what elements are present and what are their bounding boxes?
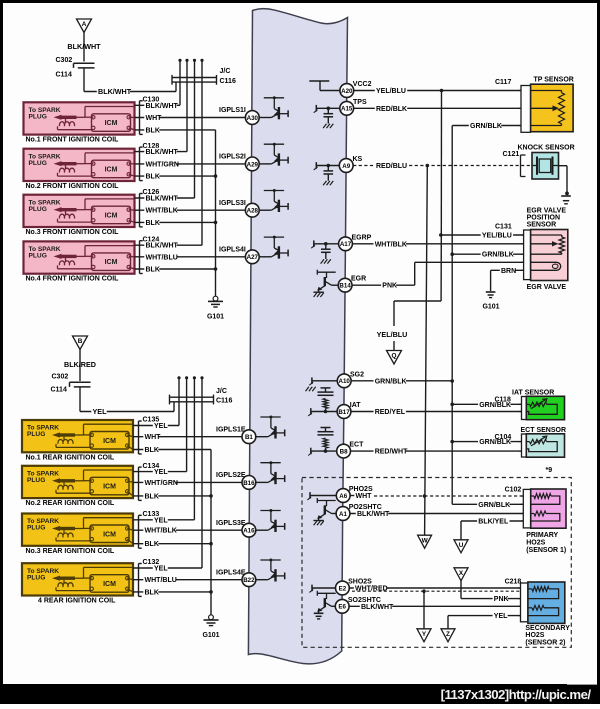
- TP sensor box: [531, 84, 574, 132]
- label PRIMARY HO2S (SENSOR 1): [526, 532, 566, 554]
- secondary HO2S heater: [528, 605, 559, 615]
- label C117: [495, 79, 511, 86]
- primary HO2S box: [531, 489, 566, 528]
- svg-text:IGPLS2E: IGPLS2E: [216, 472, 246, 479]
- wire WHT/GRN C134 to ECM: [133, 479, 242, 487]
- svg-text:GRN/BLK: GRN/BLK: [478, 502, 510, 509]
- ECM pin A6 PHO2S: [336, 489, 350, 503]
- wire RED/WHT B8 to ECT sensor: [351, 447, 522, 455]
- ECM stub A10: [306, 377, 338, 391]
- wire BLK/WHT E6 to secondary HO2S: [349, 602, 520, 610]
- label IGPLS1E: [216, 426, 246, 433]
- svg-text:B: B: [78, 338, 83, 345]
- svg-text:C114: C114: [56, 72, 72, 79]
- svg-text:BLK/WHT: BLK/WHT: [146, 243, 179, 250]
- svg-text:ECT: ECT: [349, 442, 364, 449]
- ECM pin B16 IGPLS2E: [242, 476, 256, 490]
- wire BLK C128 to ground bus: [135, 172, 216, 180]
- wire GRN/BLK EGR sensor: [452, 250, 523, 258]
- svg-text:IGPLS3E: IGPLS3E: [216, 520, 246, 527]
- label No.4 FRONT IGNITION COIL: [26, 276, 120, 283]
- svg-text:B16: B16: [243, 480, 255, 487]
- wire WHT A6 to primary HO2S (shielded): [350, 492, 523, 500]
- svg-text:SECONDARY: SECONDARY: [525, 625, 570, 632]
- label EGR VALVE POSITION SENSOR: [527, 208, 567, 229]
- svg-text:A10: A10: [339, 378, 351, 385]
- wire PNK secondary HO2S heater: [461, 595, 521, 603]
- connector Q triangle: [387, 351, 402, 365]
- svg-text:TPS: TPS: [353, 99, 367, 106]
- svg-text:ICM: ICM: [103, 581, 116, 588]
- label C126: [143, 189, 160, 196]
- svg-text:RED/BLU: RED/BLU: [376, 163, 407, 170]
- connector bracket C135: [139, 421, 142, 454]
- label C124: [143, 236, 160, 243]
- wire BLK/WHT C124 to J/C: [135, 241, 203, 249]
- wire YEL C133 to J/C: [133, 516, 194, 524]
- ground G101 (front): [208, 296, 223, 307]
- svg-text:No.1 REAR IGNITION COIL: No.1 REAR IGNITION COIL: [26, 454, 115, 461]
- label IGPLS3I: [219, 200, 246, 207]
- ECM pin A29 IGPLS2I: [245, 157, 259, 171]
- svg-text:A6: A6: [339, 493, 347, 500]
- svg-text:No.2 FRONT IGNITION COIL: No.2 FRONT IGNITION COIL: [26, 183, 120, 190]
- connector C104 strip: [519, 434, 526, 457]
- connector A triangle: [77, 19, 92, 33]
- connector bracket C124: [140, 241, 143, 274]
- label EGRP: [352, 234, 372, 241]
- label BLK/RED (B feed): [64, 360, 96, 369]
- ECM module band: [248, 9, 347, 664]
- transistor driver IGPLS2E: [256, 461, 285, 484]
- wire BLK/WHT C128 to J/C: [135, 148, 188, 156]
- label IGPLS3E: [216, 520, 246, 527]
- wire GRN/BLK sensor-ground bus: [450, 126, 454, 505]
- HO2S section dashed box: [302, 478, 571, 648]
- label C218: [505, 579, 522, 586]
- svg-text:YEL: YEL: [154, 566, 168, 573]
- svg-text:PLUG: PLUG: [27, 431, 45, 438]
- svg-text:WHT: WHT: [356, 493, 373, 500]
- svg-text:G101: G101: [207, 314, 224, 321]
- wire YEL/BLU VCC2 bus: [394, 91, 442, 351]
- ECM pin B17 IAT: [337, 405, 351, 419]
- ignition coil C126 No.3 front: [24, 195, 135, 227]
- label BLK/WHT (A feed): [67, 42, 101, 51]
- wire shield (secondary HO2S): [352, 589, 520, 593]
- svg-text:A29: A29: [247, 161, 259, 168]
- label TPS: [353, 99, 367, 106]
- wire BLK C130 to ground bus: [135, 126, 216, 134]
- svg-text:PLUG: PLUG: [27, 525, 45, 532]
- label IGPLS2E: [216, 472, 246, 479]
- svg-text:POSITION: POSITION: [527, 215, 560, 222]
- wire shield bus KS to W: [425, 166, 428, 536]
- svg-text:WHT/BLU: WHT/BLU: [146, 254, 178, 261]
- svg-text:C131: C131: [495, 224, 512, 231]
- ECM pin A16 IGPLS3E: [242, 523, 256, 537]
- svg-text:PLUG: PLUG: [27, 574, 45, 581]
- EGR valve solenoid: [531, 262, 561, 270]
- svg-text:BLK/WHT: BLK/WHT: [357, 511, 390, 518]
- label IGPLS1I: [219, 107, 246, 114]
- label PO2SHTC: [349, 504, 382, 511]
- svg-text:ICM: ICM: [105, 120, 118, 127]
- wire WHT/BLK A17 to EGR sensor: [352, 240, 523, 248]
- svg-text:C117: C117: [495, 79, 511, 86]
- ECM driver B14: [313, 270, 338, 297]
- label C128: [143, 143, 160, 150]
- svg-text:WHT/BLU: WHT/BLU: [145, 577, 177, 584]
- svg-text:A28: A28: [247, 208, 259, 215]
- wire RED/YEL B17 to IAT sensor: [351, 408, 522, 416]
- svg-text:J/C: J/C: [220, 68, 231, 75]
- label YEL/BLU (to Q): [377, 330, 408, 339]
- wire WHT/BLK C126 to ECM: [135, 206, 246, 214]
- svg-text:YEL: YEL: [494, 613, 508, 620]
- label SHO2S: [348, 579, 372, 586]
- transistor driver IGPLS1E: [256, 416, 285, 439]
- ECM pin E2 SHO2S: [336, 581, 350, 595]
- svg-text:BLK: BLK: [145, 541, 159, 548]
- ECT thermistor: [526, 436, 557, 452]
- svg-text:GRN/BLK: GRN/BLK: [375, 378, 407, 385]
- label SECONDARY HO2S (SENSOR 2): [525, 625, 570, 646]
- svg-text:No.3 FRONT IGNITION COIL: No.3 FRONT IGNITION COIL: [26, 229, 120, 236]
- IAT thermistor: [526, 399, 557, 415]
- primary HO2S heater: [531, 511, 560, 521]
- svg-text:G101: G101: [202, 632, 219, 639]
- svg-text:WHT: WHT: [146, 115, 163, 122]
- svg-text:BLK: BLK: [146, 267, 160, 274]
- svg-text:A17: A17: [340, 241, 352, 248]
- label C114 (rear): [51, 387, 67, 394]
- wire BLK C124 to ground bus: [135, 265, 216, 273]
- connector Z triangle: [441, 629, 455, 642]
- svg-text:YEL: YEL: [93, 407, 108, 416]
- wire BLK/WHT C130 to J/C: [135, 102, 181, 110]
- wire GRN/BLK A10 to bus: [351, 377, 452, 385]
- connector C302/C114 (rear): [70, 382, 91, 387]
- wire YEL secondary HO2S heater: [448, 612, 521, 629]
- svg-text:VCC2: VCC2: [353, 81, 372, 88]
- transistor driver IGPLS1I: [259, 96, 288, 119]
- label C114: [56, 72, 72, 79]
- primary HO2S element: [531, 494, 560, 505]
- svg-text:B17: B17: [338, 409, 350, 416]
- connector bracket C128: [140, 147, 143, 181]
- svg-text:BLK/WHT: BLK/WHT: [361, 604, 394, 611]
- svg-text:B14: B14: [339, 283, 351, 290]
- label C132: [143, 559, 160, 566]
- svg-text:WHT/BLK: WHT/BLK: [145, 528, 177, 535]
- label G101 (EGR): [482, 303, 499, 310]
- label C104: [495, 434, 512, 441]
- connector Y triangle: [417, 629, 431, 642]
- svg-text:C302: C302: [52, 374, 69, 381]
- ignition coil C128 No.2 front: [24, 149, 135, 181]
- wire BLK C126 to ground bus: [135, 219, 216, 227]
- svg-text:WHT/BLK: WHT/BLK: [146, 208, 178, 215]
- label C134: [143, 463, 160, 470]
- ECM pin B22 IGPLS4E: [242, 573, 256, 587]
- ECM pullup B17: [308, 388, 337, 416]
- wire RED/BLU A9 to knock sensor (shielded): [353, 162, 534, 170]
- svg-text:PNK: PNK: [382, 283, 397, 290]
- label C121: [503, 151, 520, 158]
- transistor driver IGPLS4E: [256, 559, 285, 582]
- svg-text:TP SENSOR: TP SENSOR: [534, 77, 574, 84]
- label IAT SENSOR: [512, 390, 554, 397]
- svg-text:A27: A27: [247, 254, 259, 261]
- label KNOCK SENSOR: [518, 145, 575, 152]
- junction connector J/C C116 (rear): [170, 376, 214, 568]
- svg-text:[1137x1302]http://upic.me/: [1137x1302]http://upic.me/: [441, 687, 592, 702]
- label IAT: [350, 402, 361, 409]
- ECM pin A1 PO2SHTC: [336, 507, 350, 521]
- svg-text:U: U: [459, 542, 464, 549]
- svg-text:A30: A30: [247, 115, 259, 122]
- connector C131 strip: [521, 230, 531, 280]
- svg-text:X: X: [459, 570, 464, 577]
- ECM pin A10 SG2: [337, 374, 351, 388]
- svg-text:No.1 FRONT IGNITION COIL: No.1 FRONT IGNITION COIL: [26, 137, 120, 144]
- svg-text:BLK: BLK: [145, 589, 159, 596]
- ground (EGR valve): [486, 292, 496, 298]
- ECM pin A15 TPS: [340, 101, 354, 115]
- svg-text:No.3 REAR IGNITION COIL: No.3 REAR IGNITION COIL: [26, 548, 115, 555]
- svg-text:C116: C116: [216, 398, 232, 405]
- svg-text:BRN: BRN: [501, 268, 516, 275]
- connector B triangle: [73, 336, 88, 350]
- label C130: [143, 97, 160, 104]
- ECM pin A9 KS: [339, 159, 353, 173]
- wire GRN/BLK TP sensor to bus: [452, 122, 521, 130]
- svg-text:A9: A9: [342, 163, 350, 170]
- connector bracket C133: [139, 515, 142, 548]
- watermark: [441, 687, 592, 702]
- connector bracket C134: [139, 467, 142, 500]
- label No.1 REAR IGNITION COIL: [26, 454, 115, 461]
- ECM stub A6: [307, 492, 336, 500]
- knock sensor crystal: [532, 157, 559, 175]
- ECM pin A17 EGRP: [339, 237, 353, 251]
- ignition coil C134 No.2 rear: [22, 466, 133, 498]
- ignition coil C133 No.3 rear: [22, 514, 133, 546]
- svg-text:WHT: WHT: [145, 434, 162, 441]
- label C116 (rear): [216, 398, 232, 405]
- secondary HO2S box: [528, 582, 565, 623]
- wire X to PNK row: [460, 581, 462, 599]
- svg-text:WHT/BLK: WHT/BLK: [375, 241, 407, 248]
- svg-text:BLK/WHT: BLK/WHT: [146, 149, 179, 156]
- ECM pin B8 ECT: [337, 444, 351, 458]
- svg-text:SG2: SG2: [350, 371, 364, 378]
- ECM pin B1 IGPLS1E: [242, 430, 256, 444]
- transistor driver IGPLS3E: [256, 509, 285, 532]
- svg-text:EGR: EGR: [351, 276, 366, 283]
- svg-text:C104: C104: [495, 434, 512, 441]
- connector bracket C132: [139, 564, 142, 597]
- svg-text:HO2S: HO2S: [525, 632, 544, 639]
- svg-text:ICM: ICM: [105, 213, 118, 220]
- label C131: [495, 224, 512, 231]
- svg-text:(SENSOR 1): (SENSOR 1): [526, 547, 566, 554]
- ignition coil C135 No.1 rear: [22, 420, 133, 452]
- IAT sensor box: [526, 396, 564, 419]
- svg-text:BLK/WHT: BLK/WHT: [67, 42, 101, 51]
- svg-text:C218: C218: [505, 579, 522, 586]
- connector C218 strip: [518, 583, 528, 622]
- svg-text:C102: C102: [505, 487, 522, 494]
- label No.2 FRONT IGNITION COIL: [26, 183, 120, 190]
- ECM pin B14 EGR: [338, 278, 352, 292]
- wire BLK/WHT A1 to primary HO2S: [350, 510, 523, 518]
- label C135: [143, 417, 160, 424]
- ground G101 (rear): [204, 615, 219, 626]
- svg-text:YEL/BLU: YEL/BLU: [377, 330, 408, 339]
- svg-text:BLK: BLK: [146, 220, 160, 227]
- svg-text:PLUG: PLUG: [29, 206, 47, 213]
- svg-text:A1: A1: [339, 511, 347, 518]
- label VCC2: [353, 81, 372, 88]
- label C102: [505, 487, 522, 494]
- svg-text:BLK/WHT: BLK/WHT: [146, 103, 179, 110]
- ignition coil C132 No.4 rear: [22, 563, 133, 595]
- svg-text:E2: E2: [339, 585, 347, 592]
- ECM VCC2 reference: [309, 81, 340, 91]
- svg-text:BLK/YEL: BLK/YEL: [478, 519, 509, 526]
- wire WHT/BLK C133 to ECM: [133, 526, 242, 534]
- label C118: [495, 397, 511, 404]
- svg-text:G101: G101: [482, 303, 499, 310]
- secondary HO2S element: [528, 587, 559, 599]
- wire GRN/BLK primary HO2S: [452, 500, 523, 508]
- wire BLK/YEL primary HO2S: [461, 517, 523, 540]
- svg-text:Y: Y: [422, 631, 427, 638]
- connector C102 strip: [521, 489, 531, 528]
- label No.3 REAR IGNITION COIL: [26, 548, 115, 555]
- svg-text:C121: C121: [503, 151, 520, 158]
- connector C117 strip: [519, 86, 531, 133]
- svg-text:IGPLS2I: IGPLS2I: [219, 154, 246, 161]
- connector C118 strip: [519, 397, 526, 420]
- connector bracket C126: [140, 194, 143, 227]
- svg-text:PLUG: PLUG: [29, 253, 47, 260]
- wire BRN EGR valve to ground: [491, 266, 524, 291]
- svg-text:YEL: YEL: [154, 423, 168, 430]
- ground bus front coils: [214, 130, 218, 297]
- svg-text:IGPLS4I: IGPLS4I: [219, 247, 246, 254]
- ECM driver A1: [313, 498, 336, 525]
- wire WHT/BLU C132 to ECM: [133, 576, 242, 584]
- svg-text:PLUG: PLUG: [27, 477, 45, 484]
- svg-text:BLK: BLK: [146, 174, 160, 181]
- label 4 REAR IGNITION COIL: [38, 598, 116, 605]
- svg-text:EGRP: EGRP: [352, 234, 372, 241]
- connector W triangle: [418, 535, 432, 548]
- svg-text:RED/YEL: RED/YEL: [375, 409, 406, 416]
- wire BLK C135 to ground bus: [133, 446, 211, 454]
- wire shield drain to Y: [423, 591, 425, 629]
- ECM filter A17: [311, 240, 339, 263]
- svg-text:4 REAR IGNITION COIL: 4 REAR IGNITION COIL: [38, 598, 116, 605]
- label C133: [143, 511, 160, 518]
- svg-text:GRN/BLK: GRN/BLK: [482, 252, 514, 259]
- label KS: [353, 156, 363, 163]
- wire C114 down: [83, 68, 85, 92]
- svg-text:BLK/WHT: BLK/WHT: [98, 87, 132, 96]
- wire knock sensor to ground: [559, 166, 569, 196]
- svg-text:HO2S: HO2S: [526, 540, 545, 547]
- wire YEL C132 to J/C: [133, 564, 202, 572]
- svg-text:IAT: IAT: [350, 402, 361, 409]
- wire WHT C130 to ECM: [135, 114, 246, 122]
- svg-text:J/C: J/C: [216, 388, 227, 395]
- transistor driver IGPLS3I: [259, 189, 288, 212]
- label IGPLS2I: [219, 154, 246, 161]
- svg-text:ICM: ICM: [103, 484, 116, 491]
- ECM filter A9: [314, 162, 340, 185]
- ground bus rear coils: [209, 450, 213, 616]
- svg-text:C118: C118: [495, 397, 511, 404]
- label J/C (rear): [216, 388, 227, 395]
- svg-text:YEL/BLU: YEL/BLU: [376, 88, 406, 95]
- svg-text:PLUG: PLUG: [29, 114, 47, 121]
- svg-text:B8: B8: [340, 449, 348, 456]
- svg-text:EGR VALVE: EGR VALVE: [527, 208, 567, 215]
- label TP SENSOR: [534, 77, 574, 84]
- label G101 (front): [207, 314, 224, 321]
- label IGPLS4I: [219, 247, 246, 254]
- label C116 (front): [220, 78, 236, 85]
- label SO2SHTC: [348, 597, 381, 604]
- label SG2: [350, 371, 364, 378]
- svg-text:C116: C116: [220, 78, 236, 85]
- transistor driver IGPLS4I: [259, 236, 288, 259]
- wire A to C302: [83, 33, 85, 62]
- label EGR VALVE: [527, 284, 567, 291]
- svg-text:RED/BLK: RED/BLK: [376, 106, 407, 113]
- wire BLK/WHT to J/C: [84, 82, 176, 96]
- wire BLK C133 to ground bus: [133, 540, 211, 548]
- transistor driver IGPLS2I: [259, 143, 288, 166]
- svg-text:BLK/WHT: BLK/WHT: [146, 196, 179, 203]
- ignition coil C124 No.4 front: [24, 241, 135, 273]
- svg-text:SENSOR: SENSOR: [527, 222, 557, 229]
- label C302 (rear): [52, 374, 69, 381]
- connector C121 bracket: [521, 155, 526, 177]
- wire B to C302: [79, 350, 81, 382]
- svg-text:ICM: ICM: [103, 531, 116, 538]
- svg-text:RED/WHT: RED/WHT: [375, 449, 408, 456]
- svg-text:PNK: PNK: [494, 596, 509, 603]
- label ECT: [349, 442, 364, 449]
- svg-text:BLK: BLK: [146, 127, 160, 134]
- svg-text:B1: B1: [245, 434, 253, 441]
- EGR position potentiometer: [531, 235, 565, 254]
- svg-text:(SENSOR 2): (SENSOR 2): [525, 639, 565, 646]
- svg-text:PRIMARY: PRIMARY: [526, 532, 558, 539]
- EGR valve position sensor box: [531, 230, 568, 281]
- svg-text:A16: A16: [243, 528, 255, 535]
- ECM pin A30 IGPLS1I: [245, 111, 259, 125]
- wire RED/BLK A15 to TP sensor: [354, 105, 521, 113]
- TP sensor potentiometer: [531, 91, 565, 126]
- wire WHT/BLU C124 to ECM: [135, 253, 246, 261]
- note *9: [546, 467, 553, 474]
- svg-text:IGPLS3I: IGPLS3I: [219, 200, 246, 207]
